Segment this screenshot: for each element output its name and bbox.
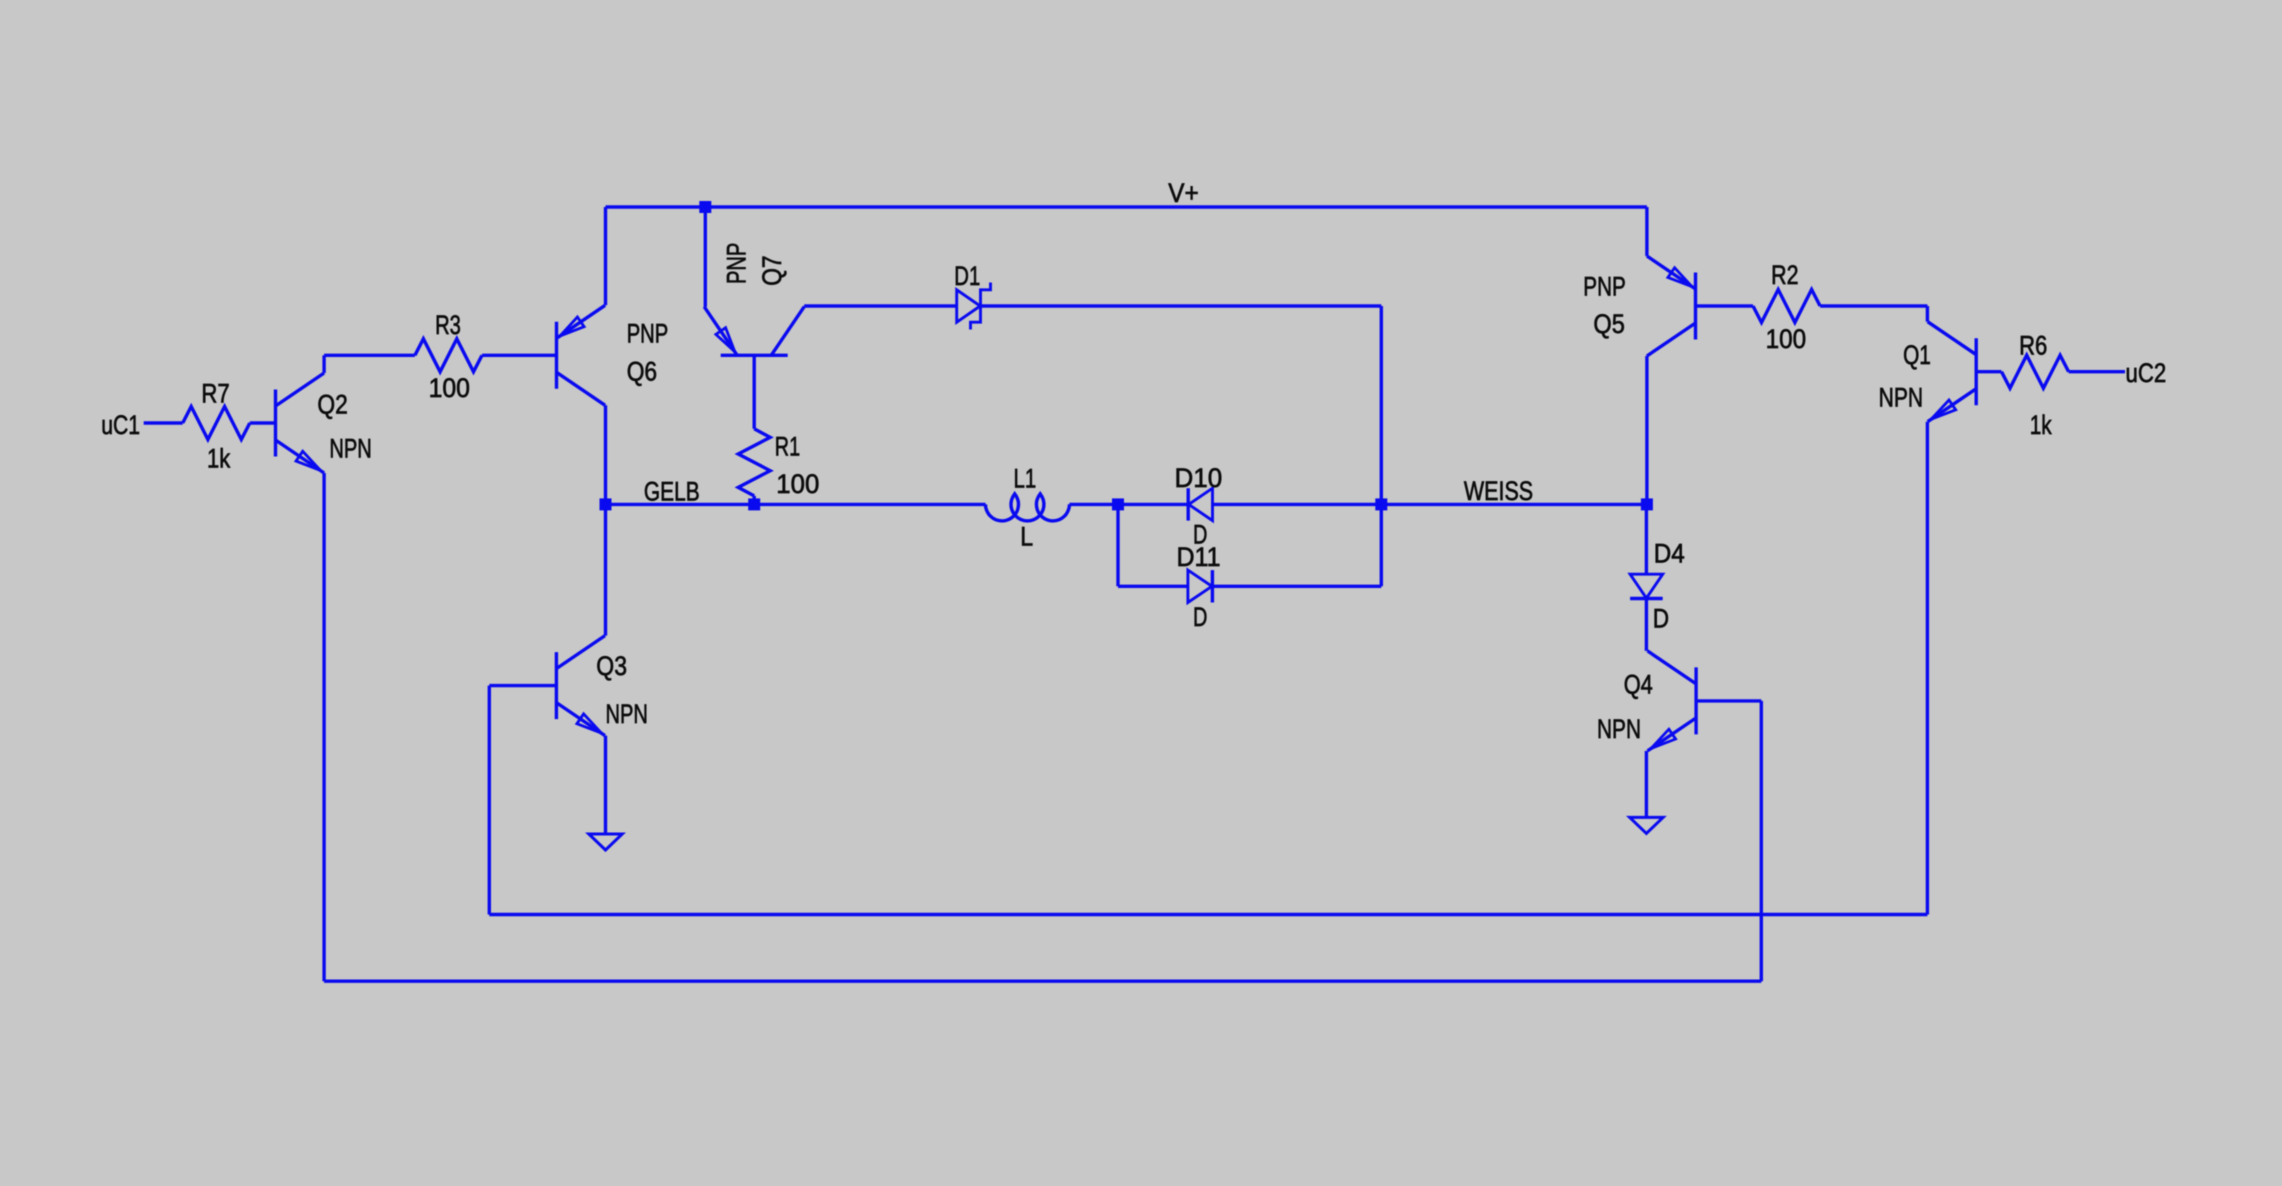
transistor Q1 emitter diagonal <box>1928 389 1977 422</box>
transistor Q2 collector diagonal <box>276 373 325 406</box>
transistor Q3 emitter arrow <box>577 714 602 733</box>
wire Q4 emitter down to ground <box>1645 751 1648 818</box>
svg-text:100: 100 <box>1766 324 1807 354</box>
wire Q3 base down to rail 1 <box>488 686 491 915</box>
wire R6 to uC2 <box>2069 370 2125 373</box>
wire D1 cathode to WEISS drop <box>981 304 1382 307</box>
svg-text:1k: 1k <box>2030 410 2052 440</box>
svg-text:Q1: Q1 <box>1903 340 1931 370</box>
wire D4 to Q4 collector <box>1645 599 1648 651</box>
transistor Q1 base bar <box>1974 338 1977 405</box>
svg-text:PNP: PNP <box>722 243 752 284</box>
wire GELB junction down to Q3 collector <box>604 504 607 635</box>
svg-text:Q2: Q2 <box>317 389 347 419</box>
svg-text:D4: D4 <box>1654 538 1685 568</box>
transistor Q4 collector diagonal <box>1648 651 1697 684</box>
wire bottom rail Q3-base to Q1-emitter <box>489 913 1927 916</box>
wire Q5 collector down to WEISS junction <box>1645 356 1648 504</box>
transistor Q1 emitter arrow <box>1931 400 1956 419</box>
diode D10 triangle <box>1189 488 1213 520</box>
svg-text:100: 100 <box>776 469 819 499</box>
transistor Q7 collector diagonal <box>771 307 804 356</box>
wire Q3 emitter down to ground <box>604 736 607 834</box>
svg-text:NPN: NPN <box>1597 714 1641 744</box>
node junction D1/D10/D11/WEISS <box>1375 498 1387 510</box>
wire WEISS junction down to D4 <box>1645 504 1648 574</box>
wire Q5 base to R2 <box>1696 304 1754 307</box>
transistor Q4 emitter arrow <box>1651 729 1676 748</box>
wire to D11 anode <box>1118 585 1188 588</box>
transistor Q2 emitter diagonal <box>276 440 325 473</box>
svg-text:R6: R6 <box>2019 331 2047 361</box>
svg-text:PNP: PNP <box>627 319 669 349</box>
transistor Q5 collector diagonal <box>1647 323 1696 356</box>
svg-text:Q4: Q4 <box>1624 670 1653 700</box>
svg-text:Q7: Q7 <box>757 255 787 285</box>
svg-text:V+: V+ <box>1168 178 1199 208</box>
node junction L1/D10/D11 <box>1112 498 1124 510</box>
inductor L1 coil <box>986 494 1070 521</box>
transistor Q2 emitter arrow <box>296 451 321 470</box>
diode D10 cathode bar <box>1186 488 1189 520</box>
svg-text:uC2: uC2 <box>2126 358 2167 388</box>
svg-text:NPN: NPN <box>1879 383 1924 413</box>
diode D4 triangle <box>1630 574 1663 598</box>
svg-text:D10: D10 <box>1175 463 1223 493</box>
wire GELB rail to L1 <box>606 503 986 506</box>
diode D11 triangle <box>1188 570 1212 602</box>
svg-text:Q5: Q5 <box>1593 309 1624 339</box>
wire bottom rail Q2-emitter to Q4-base <box>324 980 1761 983</box>
transistor Q1 collector diagonal <box>1928 322 1977 355</box>
transistor Q6 emitter diagonal <box>557 305 606 338</box>
svg-text:WEISS: WEISS <box>1464 476 1533 506</box>
wire L1 to D10 junction <box>1069 503 1118 506</box>
wire Q1 base to R6 <box>1976 370 2001 373</box>
diode D4 cathode bar <box>1630 597 1663 600</box>
resistor R1 zigzag <box>738 429 770 496</box>
node junction WEISS at Q5 collector / D4 <box>1641 498 1653 510</box>
svg-text:R7: R7 <box>201 379 229 409</box>
node V+ junction at Q7 emitter <box>699 201 711 213</box>
wire D10 anode to WEISS junction <box>1213 503 1382 506</box>
resistor R6 zigzag <box>2002 355 2069 388</box>
zener diode D1 triangle <box>957 290 981 322</box>
resistor R3 zigzag <box>415 339 482 372</box>
svg-text:100: 100 <box>429 373 470 403</box>
ground at Q4 emitter <box>1630 817 1663 833</box>
transistor Q4 base bar <box>1694 667 1697 734</box>
transistor Q5 emitter diagonal <box>1647 256 1696 289</box>
transistor Q3 emitter diagonal <box>556 703 605 736</box>
svg-text:D1: D1 <box>954 261 980 291</box>
wire R1 to GELB junction <box>753 496 756 505</box>
wire junction down to D11 branch <box>1116 504 1119 586</box>
svg-text:Q6: Q6 <box>627 357 657 387</box>
ground at Q3 emitter <box>589 834 622 850</box>
wire Q6 emitter to V+ <box>604 207 607 305</box>
svg-text:D11: D11 <box>1177 542 1221 572</box>
diode D11 cathode bar <box>1211 570 1214 602</box>
svg-text:R3: R3 <box>435 310 461 340</box>
wire drop from D1 line down to WEISS junction <box>1380 306 1383 504</box>
transistor Q7 emitter arrow <box>716 328 735 352</box>
svg-text:NPN: NPN <box>329 433 371 463</box>
svg-text:Q3: Q3 <box>596 651 627 681</box>
transistor Q2 base bar <box>274 390 277 457</box>
transistor Q3 base bar <box>555 652 558 719</box>
svg-text:PNP: PNP <box>1583 271 1626 301</box>
svg-text:L: L <box>1020 521 1033 551</box>
transistor Q6 base bar <box>555 322 558 389</box>
svg-text:GELB: GELB <box>644 476 700 506</box>
transistor Q4 emitter diagonal <box>1648 718 1697 751</box>
resistor R2 zigzag <box>1753 290 1820 323</box>
transistor Q3 collector diagonal <box>556 636 605 669</box>
svg-text:R2: R2 <box>1771 260 1798 290</box>
svg-text:uC1: uC1 <box>101 410 140 440</box>
wire Q1 emitter down to rail <box>1926 422 1929 915</box>
wire R3 to Q6 base <box>482 354 557 357</box>
svg-text:R1: R1 <box>775 432 800 462</box>
wire WEISS rail <box>1381 503 1647 506</box>
transistor Q6 collector diagonal <box>557 372 606 405</box>
node GELB junction at Q6/Q3 <box>600 498 612 510</box>
wire Q7 emitter to V+ junction <box>704 207 707 307</box>
wire Q2 collector to R3 <box>324 354 415 357</box>
wire R7 to Q2 base <box>250 421 276 424</box>
resistor R7 zigzag <box>183 407 250 440</box>
wire D11 cathode to riser <box>1212 585 1381 588</box>
svg-text:L1: L1 <box>1014 464 1037 494</box>
wire V+ rail <box>606 205 1647 208</box>
wire Q6 collector to GELB junction <box>604 405 607 504</box>
node junction R1 bottom <box>748 498 760 510</box>
transistor Q5 emitter arrow <box>1668 268 1692 287</box>
wire to Q4 base bar <box>1696 699 1761 702</box>
wire up to Q4 base <box>1760 701 1763 981</box>
wire Q3 base left <box>489 684 556 687</box>
wire Q7 base down to R1 <box>753 355 756 429</box>
transistor Q5 base bar <box>1694 273 1697 340</box>
transistor Q7 emitter diagonal <box>704 307 737 356</box>
wire uC1 to R7 <box>144 421 183 424</box>
wire Q2 emitter down to bottom rail <box>322 473 325 981</box>
wire Q2 collector up <box>322 355 325 373</box>
wire junction to D10 cathode <box>1118 503 1188 506</box>
wire down to Q1 collector <box>1926 306 1929 322</box>
transistor Q6 emitter arrow <box>560 317 584 336</box>
svg-text:1k: 1k <box>207 443 231 473</box>
svg-text:NPN: NPN <box>606 699 648 729</box>
zener diode D1 cathode bar with hooks <box>971 283 991 330</box>
svg-text:D: D <box>1653 604 1669 634</box>
transistor Q7 base bar <box>721 354 788 357</box>
wire riser D11 up to WEISS junction <box>1380 504 1383 586</box>
wire R2 to Q1 collector riser <box>1820 304 1927 307</box>
wire Q7 collector to D1 <box>803 304 806 308</box>
wire Q5 emitter to V+ <box>1645 207 1648 256</box>
svg-text:D: D <box>1193 602 1207 632</box>
